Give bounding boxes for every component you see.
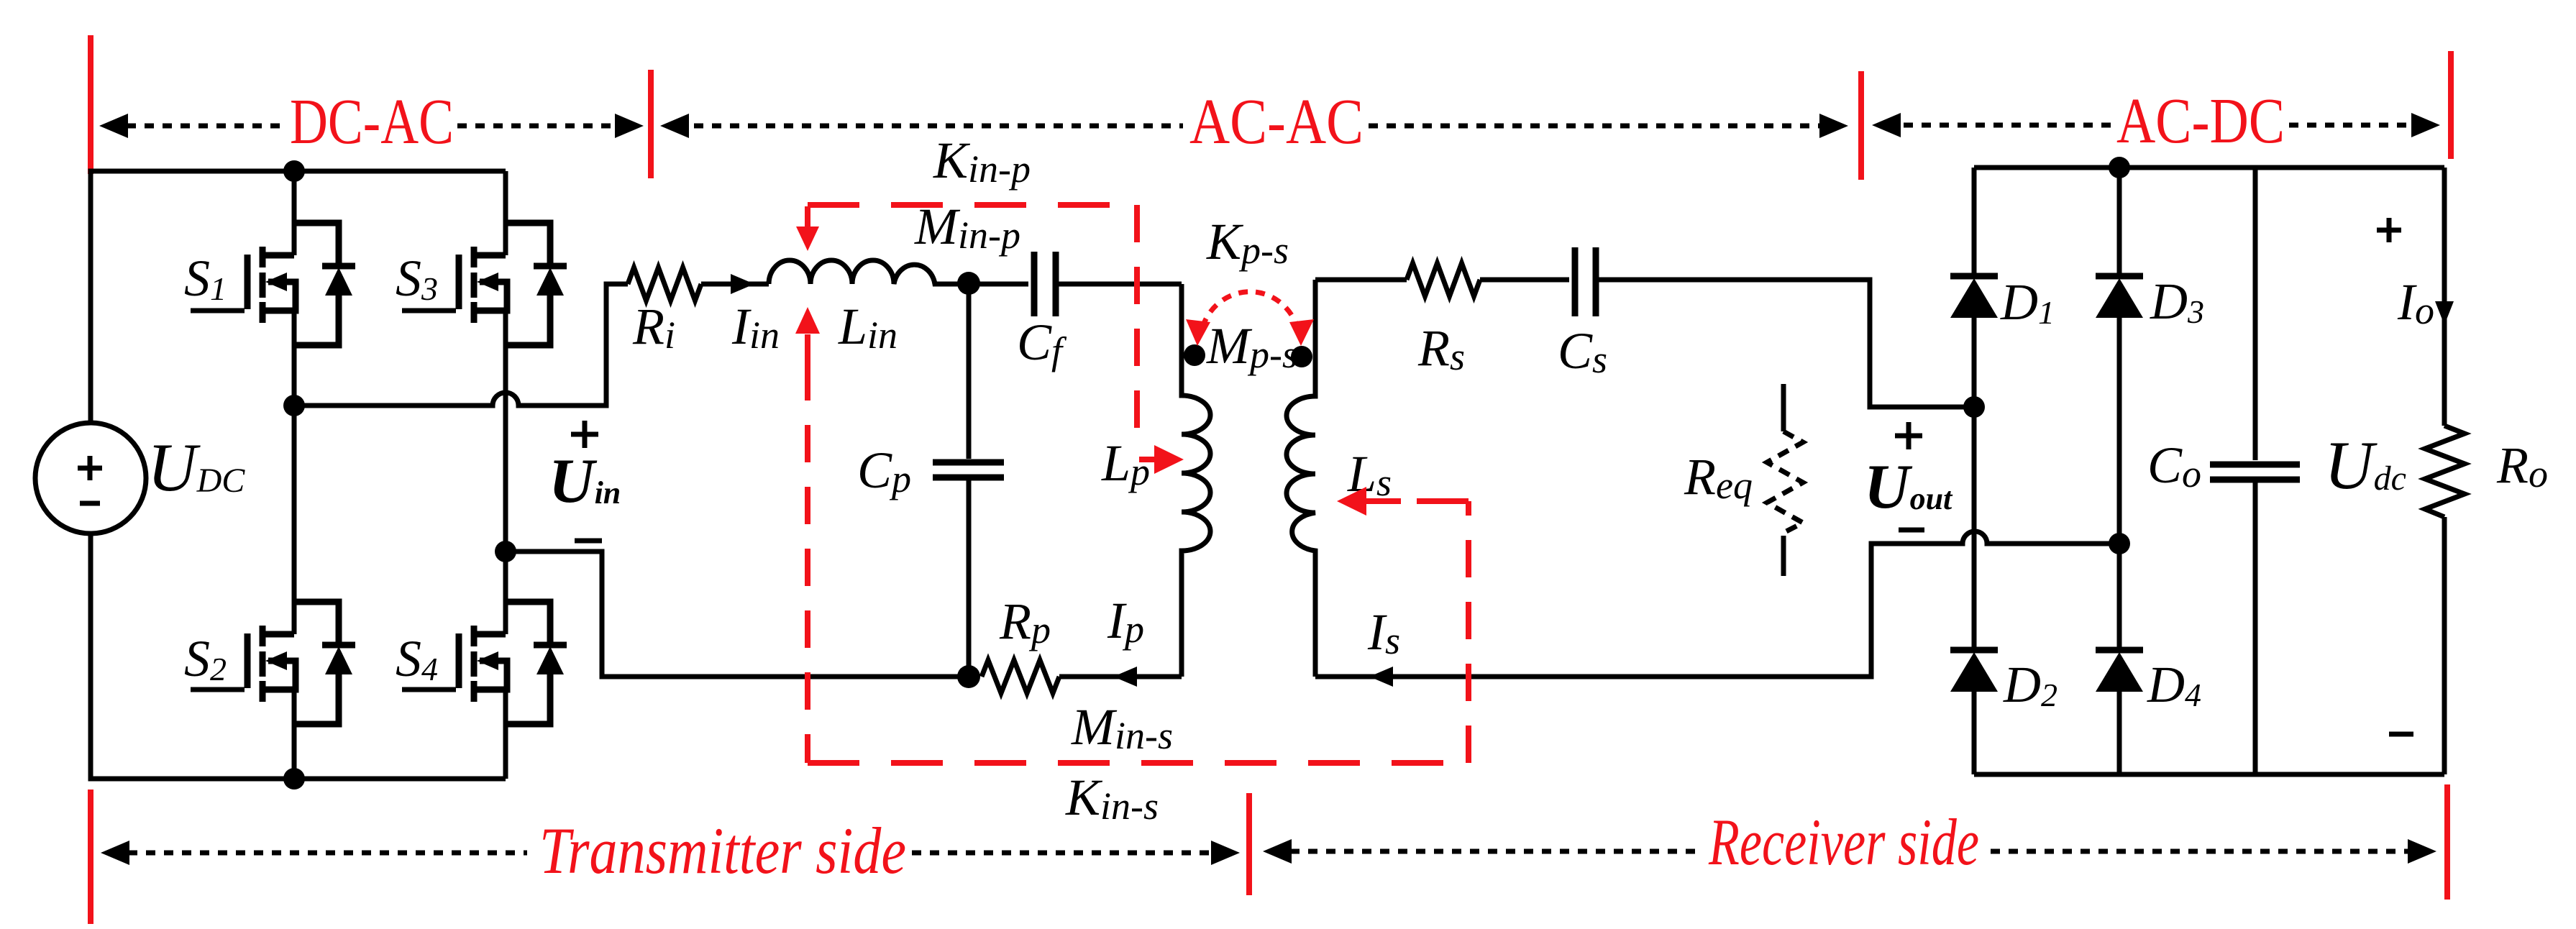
label U_in minus	[575, 539, 602, 544]
resistor R_eq (dashed equivalent)	[1767, 384, 1803, 576]
capacitor C_p	[933, 284, 1004, 677]
node bottom rail junction	[283, 768, 305, 790]
red bottom bar middle	[1246, 793, 1252, 895]
label U_out minus	[1899, 528, 1924, 533]
red bottom bar left	[88, 790, 93, 924]
diode D1	[1950, 276, 1998, 318]
capacitor C_s	[1575, 247, 1596, 316]
capacitor C_f	[1034, 252, 1182, 316]
wire left edge top	[91, 171, 506, 423]
transistor S2	[191, 602, 355, 724]
label U_in plus	[571, 421, 598, 448]
svg-text:AC-DC: AC-DC	[2116, 86, 2285, 157]
red arrow into L_s	[1337, 487, 1401, 516]
label output minus	[2389, 732, 2413, 737]
wire C_s to U_out+	[1596, 280, 1974, 407]
wire bottom rail right	[1974, 772, 2444, 777]
node top rail D3	[2109, 157, 2130, 178]
AC-DC span arrow	[1872, 113, 2440, 137]
resistor R_p	[982, 660, 1059, 693]
red separator bar 2 (DC-AC / AC-AC)	[648, 70, 654, 178]
wire R_s to C_s	[1480, 278, 1569, 283]
wire top rail right	[1974, 165, 2444, 170]
red arrow into L_in from above	[796, 206, 819, 251]
coupling arc K_p-s	[1186, 292, 1314, 346]
label output plus	[2377, 218, 2401, 242]
svg-text:DC-AC: DC-AC	[290, 86, 454, 157]
node U_in+ tap	[283, 395, 305, 416]
red separator bar 1 (top left)	[88, 35, 93, 174]
wire left leg S1/S2	[292, 171, 297, 779]
wire D3/D4 leg	[2117, 168, 2122, 774]
dashed K_in-p box (top)	[808, 202, 1137, 208]
wire D1/D2 leg	[1972, 168, 1977, 774]
node L_s dot terminal	[1291, 346, 1312, 367]
capacitor C_o	[2210, 168, 2300, 774]
diode D4	[2096, 650, 2143, 692]
wire U_in+ with hop over right leg	[294, 284, 628, 406]
wire right leg S3/S4	[503, 171, 508, 779]
node top rail junction	[283, 160, 305, 182]
wire L_s top to R_s	[1315, 278, 1407, 283]
Receiver side span arrow	[1263, 839, 2436, 864]
diode D2	[1950, 650, 1998, 692]
svg-text:Receiver side: Receiver side	[1708, 805, 1979, 879]
label U_out plus	[1895, 422, 1922, 449]
node U_in- tap	[495, 541, 516, 562]
wire U_in- down to bottom tank rail	[506, 552, 969, 677]
red bottom bar right	[2444, 784, 2450, 900]
node U_out+	[1963, 396, 1985, 418]
red separator bar 3 (AC-AC / AC-DC)	[1858, 71, 1864, 180]
wire L_s bottom rail with I_s arrow	[1315, 531, 2119, 687]
diode D3	[2096, 276, 2143, 318]
voltage source U_DC circle	[35, 423, 146, 534]
resistor R_s	[1407, 263, 1480, 296]
node C_p bottom	[957, 665, 980, 688]
red arrow into L_in from below	[795, 307, 820, 363]
coil L_p	[1182, 284, 1210, 677]
wire R_i to L_in with I_in arrow	[701, 274, 769, 294]
Transmitter side span arrow	[101, 841, 1240, 865]
node U_out- at D3 leg	[2109, 533, 2130, 554]
coil L_s	[1287, 280, 1315, 677]
svg-text:Transmitter side: Transmitter side	[539, 814, 906, 887]
red arrow into L_p	[1139, 445, 1184, 474]
resistor R_o	[2425, 426, 2465, 517]
wire right leg with I_o arrow	[2435, 168, 2454, 774]
wire R_p to L_p with I_p arrow	[1059, 667, 1182, 687]
transistor S3	[402, 223, 567, 345]
DC-AC span arrow	[99, 114, 644, 138]
wire left edge bottom	[91, 534, 506, 779]
AC-AC span arrow	[660, 114, 1848, 138]
wire node to C_f	[969, 282, 1028, 287]
inductor L_in	[769, 260, 969, 284]
red separator bar 4 (top right)	[2448, 51, 2454, 159]
svg-text:AC-AC: AC-AC	[1189, 86, 1364, 157]
node M_in-p	[957, 272, 980, 295]
transistor S4	[402, 602, 567, 724]
dashed M_in-s path (bottom loop)	[805, 363, 810, 763]
node L_p dot terminal	[1184, 344, 1205, 366]
resistor R_i	[628, 267, 701, 301]
transistor S1	[191, 223, 355, 345]
